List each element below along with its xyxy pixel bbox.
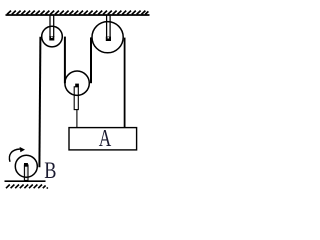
ceiling hatching [7, 11, 148, 15]
axle of winch B [24, 163, 28, 167]
bracket of pulley P2 [107, 16, 111, 38]
rotation arrow at winch B [9, 149, 20, 162]
wire: link from hanger rod to block A [76, 110, 78, 128]
ceiling line [6, 14, 150, 16]
hanger rod below pulley P3 [74, 87, 78, 110]
pulley P1 [42, 26, 63, 47]
post under winch B [24, 165, 28, 181]
ground hatching [6, 185, 46, 189]
axle of pulley P1 [49, 36, 54, 40]
axle of pulley P3 [75, 84, 79, 87]
winch drum B [15, 155, 37, 177]
pulley P2 [92, 22, 123, 53]
pulley P3 (movable) [65, 71, 89, 95]
ground hatch end dot [46, 187, 48, 189]
svg-text:B: B [44, 158, 56, 184]
wire: rope from pulley P3 right side up to pulley P2 left side [90, 37, 92, 83]
wire: rope from winch B up to pulley P1 left side [39, 37, 40, 168]
block A [69, 128, 137, 150]
ground line [5, 180, 46, 182]
wire: rope from pulley P2 right side down to block A [124, 38, 126, 128]
svg-text:A: A [99, 126, 112, 152]
wire: rope from pulley P1 right side down to pulley P3 left side [64, 37, 66, 84]
axle of pulley P2 [106, 37, 111, 41]
bracket of pulley P1 [50, 16, 54, 38]
